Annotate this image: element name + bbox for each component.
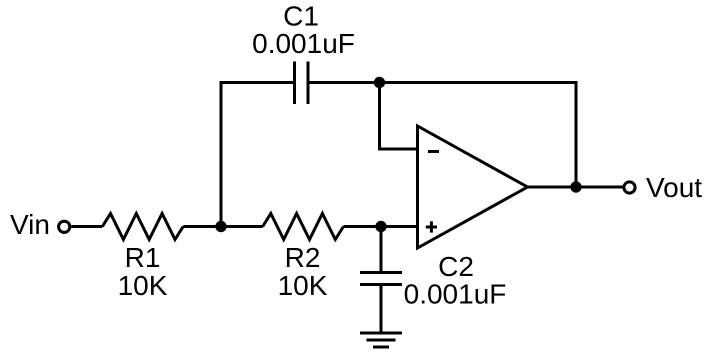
terminal Vin (open circle) <box>59 221 70 232</box>
node B junction dot (R2/C2/+input) <box>375 221 386 232</box>
svg-text:C1: C1 <box>283 1 319 32</box>
svg-text:C2: C2 <box>438 251 474 282</box>
wire node C down to inverting input level <box>378 83 381 150</box>
capacitor C2 <box>360 273 402 285</box>
wire to op-amp inverting input <box>378 148 418 151</box>
svg-text:Vin: Vin <box>10 209 50 240</box>
svg-text:0.001uF: 0.001uF <box>252 28 355 59</box>
wire node B down to C2 <box>380 227 383 272</box>
wire top rail left segment to C1 <box>220 81 294 84</box>
wire R1 to R2 through node A <box>183 225 263 228</box>
svg-text:10K: 10K <box>278 270 328 301</box>
op-amp U1 <box>418 126 528 248</box>
svg-text:R1: R1 <box>125 242 161 273</box>
svg-text:Vout: Vout <box>646 172 702 203</box>
resistor R1 <box>102 214 183 240</box>
wire feedback from output node up to top rail <box>575 81 578 187</box>
wire op-amp output to Vout terminal <box>528 186 623 189</box>
node A junction dot (R1/R2/C1 branch) <box>215 221 226 232</box>
terminal Vout (open circle) <box>624 182 635 193</box>
node D junction dot (output/feedback) <box>570 181 581 192</box>
wire R2 to op-amp non-inverting input through node B <box>344 225 418 228</box>
svg-text:10K: 10K <box>118 270 168 301</box>
wire Vin terminal to R1 <box>71 225 102 228</box>
wire top rail right segment C1 to feedback corner <box>310 81 577 84</box>
capacitor C1 <box>295 62 309 105</box>
svg-text:0.001uF: 0.001uF <box>404 279 507 310</box>
ground <box>360 333 402 347</box>
op-amp non-inverting input plus sign <box>426 221 437 232</box>
svg-text:R2: R2 <box>285 242 321 273</box>
resistor R2 <box>263 214 344 240</box>
wire node A up to top feedback rail <box>220 83 223 227</box>
op-amp inverting input minus sign <box>428 150 439 153</box>
wire C2 to ground <box>380 286 383 333</box>
node C junction dot on top rail (inverting input tap) <box>374 77 385 88</box>
